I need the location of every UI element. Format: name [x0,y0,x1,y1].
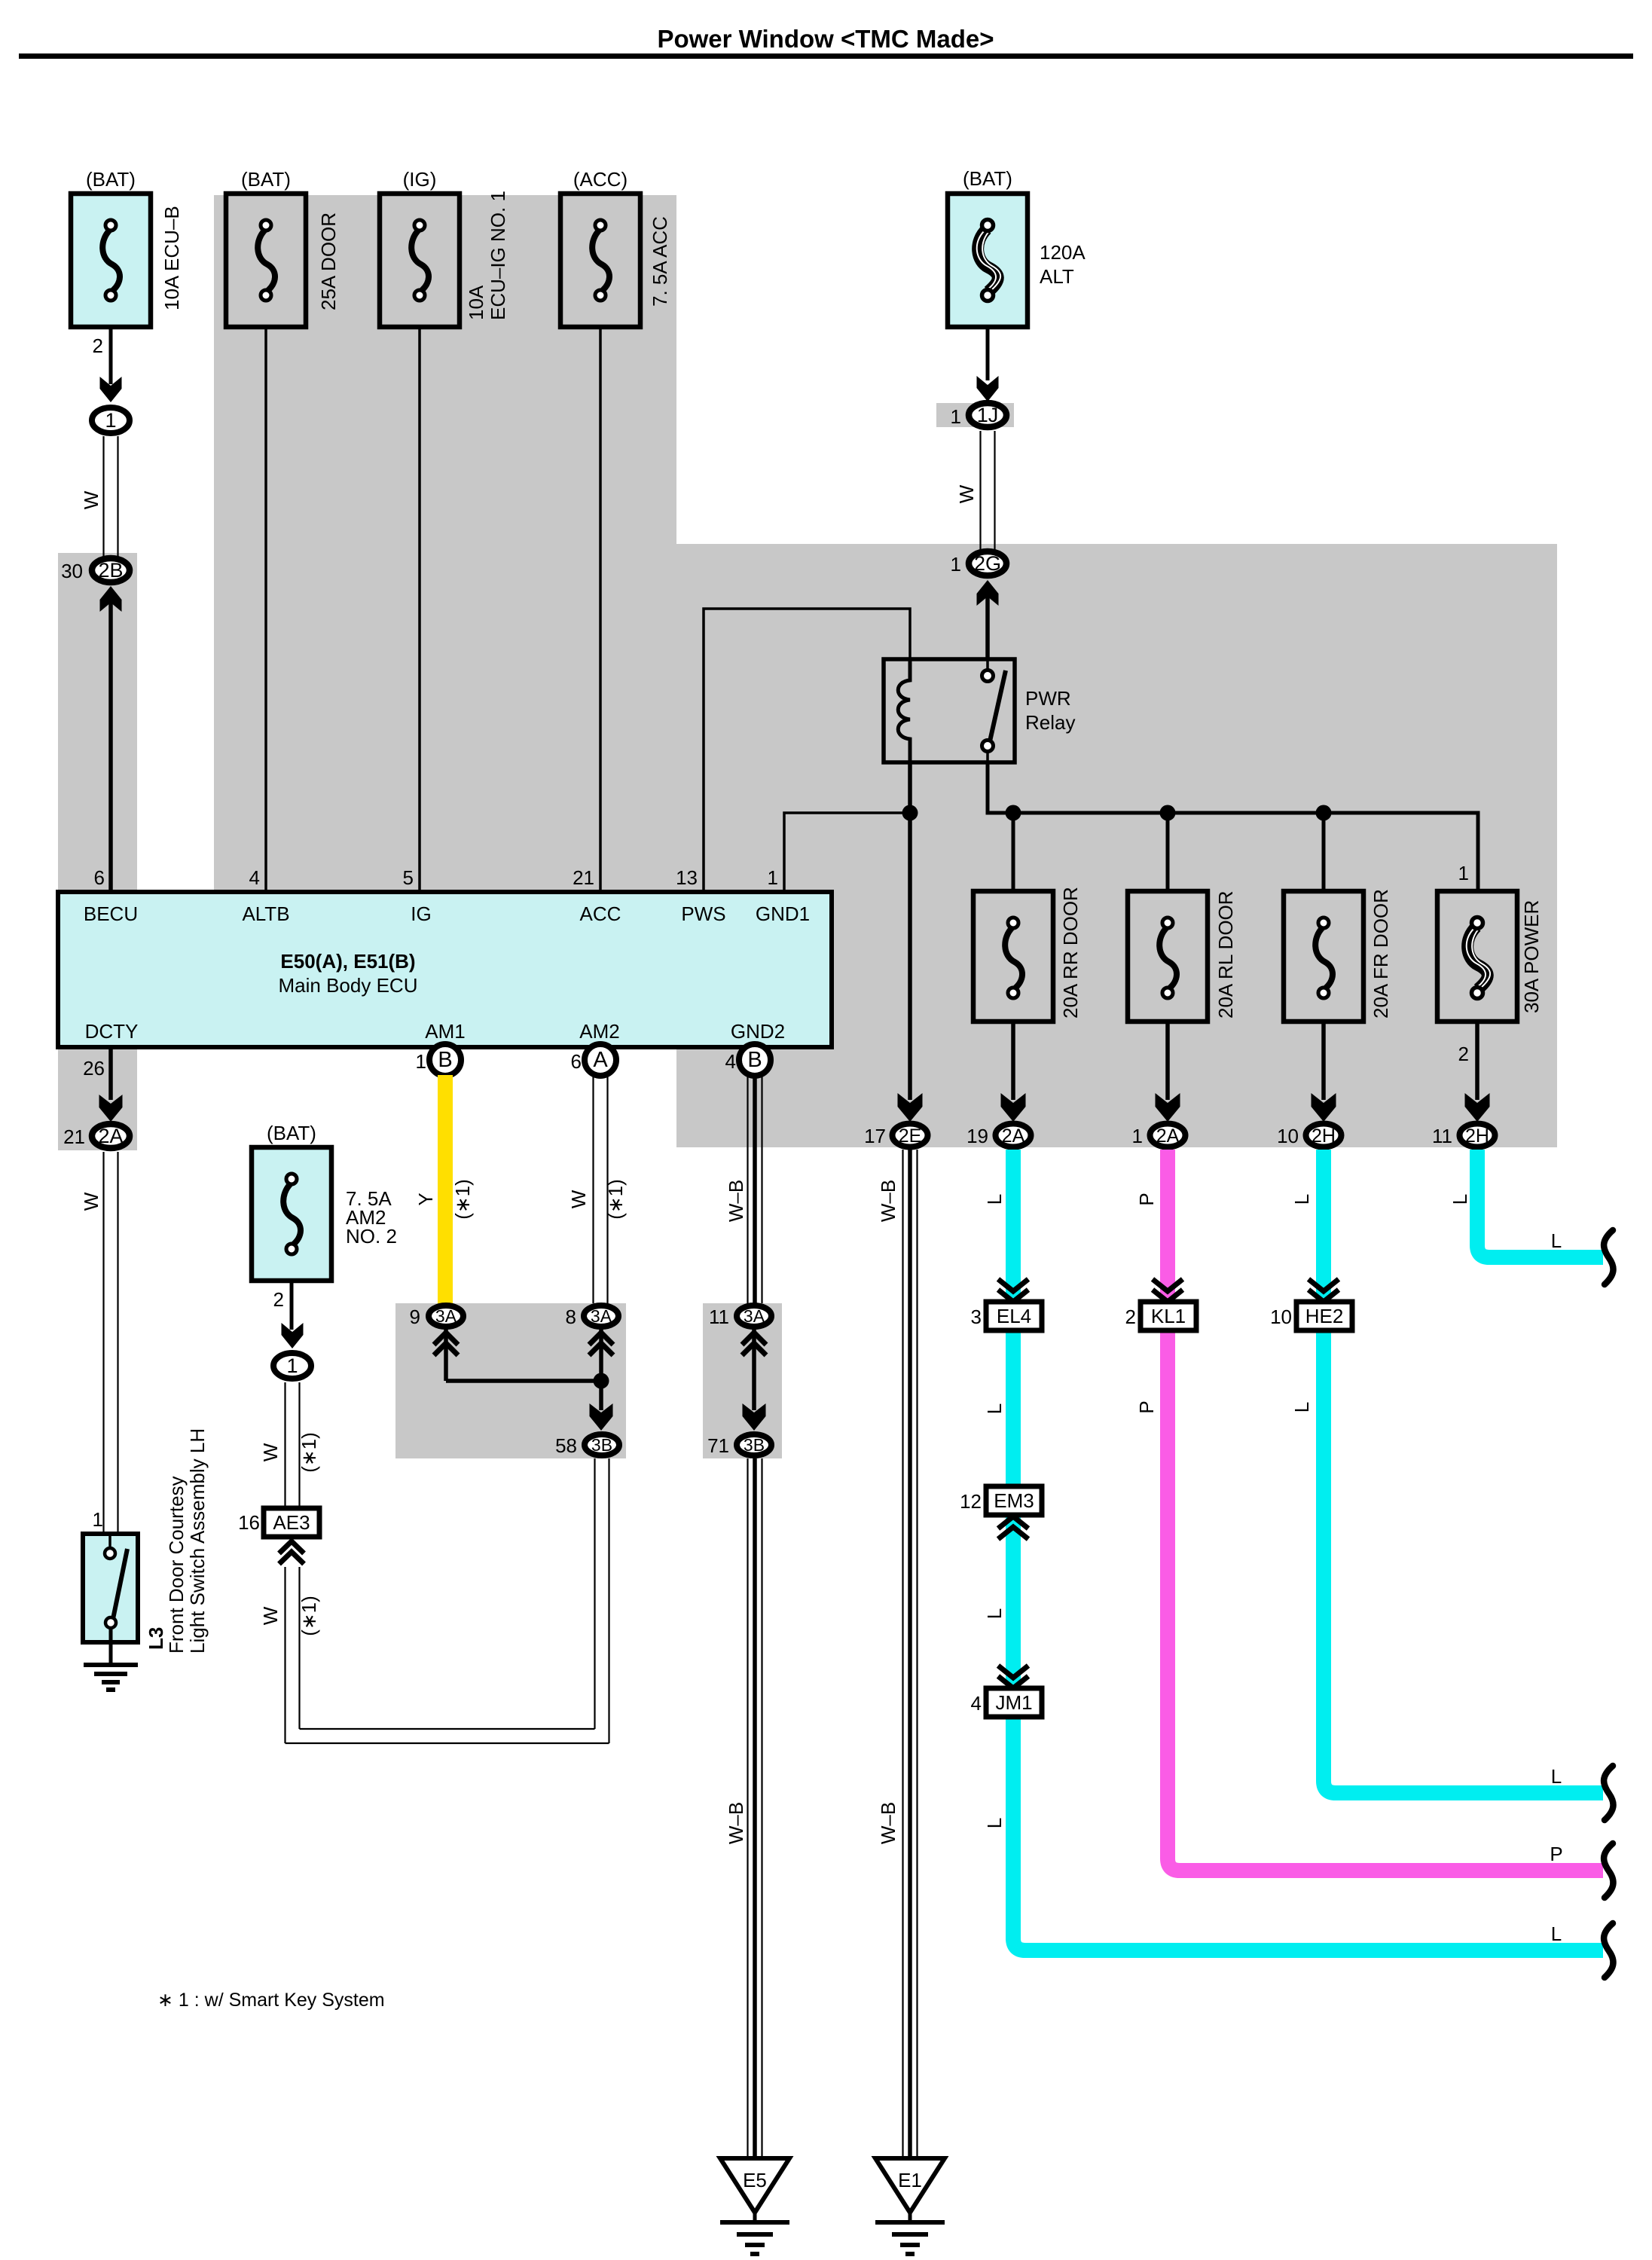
shading: band behind connector 1J [936,403,1014,427]
svg-text:Front Door Courtesy: Front Door Courtesy [165,1476,188,1654]
svg-text:KL1: KL1 [1151,1305,1186,1327]
svg-text:(∗1): (∗1) [298,1432,320,1473]
svg-text:2G: 2G [974,552,1001,575]
svg-text:9: 9 [410,1306,420,1328]
svg-text:L: L [1551,1229,1562,1252]
chevron at KL1 [1153,1279,1183,1291]
svg-text:4: 4 [725,1050,736,1073]
svg-text:E5: E5 [743,2169,767,2191]
svg-text:17: 17 [864,1125,886,1147]
svg-text:W: W [259,1606,282,1625]
svg-text:GND1: GND1 [756,902,810,925]
svg-text:2E: 2E [899,1125,922,1147]
svg-text:L: L [983,1818,1006,1828]
svg-text:L3: L3 [145,1627,167,1650]
wire W-B: 3B(71) to ground E5 [747,1458,748,2157]
svg-text:(BAT): (BAT) [86,168,136,191]
ground E1 [875,2158,945,2213]
svg-text:HE2: HE2 [1305,1305,1344,1327]
svg-text:4: 4 [249,866,260,889]
fuse RR DOOR 20A [973,891,1053,1022]
connector 2G [969,551,1006,576]
PWR Relay box [884,659,1015,762]
svg-text:P: P [1550,1843,1562,1865]
svg-text:2: 2 [273,1288,284,1311]
svg-text:1: 1 [93,1508,103,1531]
svg-text:8: 8 [566,1306,576,1328]
svg-text:DCTY: DCTY [85,1020,139,1043]
svg-text:W: W [80,490,102,509]
svg-text:2: 2 [1125,1306,1136,1328]
svg-text:(∗1): (∗1) [298,1596,320,1636]
svg-text:W–B: W–B [877,1802,899,1844]
wire: relay switch output rail to door fuses [988,762,1478,891]
svg-text:1: 1 [768,866,778,889]
svg-text:W: W [955,484,978,503]
svg-text:(BAT): (BAT) [963,167,1012,190]
connector 2H (FR door) [1306,1124,1342,1147]
svg-text:1J: 1J [977,404,999,426]
wire: rail to RR DOOR fuse [1012,813,1015,891]
chevron at AE3 [279,1541,304,1553]
connector 2A (left) [92,1124,130,1148]
svg-text:W: W [80,1192,102,1211]
svg-text:5: 5 [403,866,414,889]
wire: ECU DCTY (pin 26) to connector 2A [108,1047,113,1100]
wire: ACC fuse to ECU pin ACC (pin 21) [599,327,602,892]
connector AE3 [264,1508,319,1537]
wire: RR DOOR fuse to connector 2A [1011,1022,1015,1100]
svg-text:W–B: W–B [877,1180,899,1222]
svg-text:1: 1 [1132,1125,1143,1147]
svg-text:Y: Y [414,1193,437,1205]
junction: RL door fuse feed [1160,805,1176,821]
svg-text:B: B [747,1048,762,1072]
svg-text:E1: E1 [898,2169,922,2191]
svg-text:3B: 3B [744,1435,765,1455]
svg-text:1: 1 [1458,862,1469,884]
svg-text:10: 10 [1270,1306,1292,1328]
svg-text:P: P [1135,1193,1158,1205]
wire P: 2A(1) via KL1 to RL door [1168,1150,1603,1871]
svg-text:W: W [567,1190,590,1208]
svg-text:EM3: EM3 [994,1489,1034,1512]
svg-text:1: 1 [286,1354,298,1377]
connector EL4 [986,1302,1042,1330]
svg-text:1: 1 [951,553,961,576]
fuse AM2 NO.2 7.5A (BAT) [252,1147,331,1281]
svg-text:3A: 3A [744,1306,765,1326]
svg-text:Relay: Relay [1025,711,1075,734]
connector 3A (pin 11) [737,1306,771,1327]
svg-text:EL4: EL4 [997,1305,1031,1327]
svg-text:19: 19 [966,1125,988,1147]
chevron at HE2 [1308,1279,1339,1291]
svg-text:ECU–IG NO. 1: ECU–IG NO. 1 [487,191,509,320]
wire: 3A(9) junction link [444,1329,448,1381]
break symbol L (FR) [1604,1766,1613,1820]
svg-text:GND2: GND2 [731,1020,785,1043]
wire W (*1): AM2 to connector 3A (8) [592,1075,594,1303]
svg-text:21: 21 [573,866,594,889]
wire: DOOR fuse to ECU pin ALTB (pin 4) [264,327,267,892]
svg-text:L: L [983,1608,1006,1619]
connector EM3 [986,1486,1042,1515]
wire L: 2H(11) to power window [1477,1150,1603,1257]
fuse POWER 30A [1437,891,1517,1022]
shading: relay / door fuse junction block area (right) [676,544,1557,1147]
svg-text:26: 26 [83,1057,105,1080]
shading: fuse block area (top) [214,195,676,892]
wire W-B: 2E to ground E1 [902,1150,903,2157]
wire L: 2A(19) via EL4, EM3, JM1 to RR door [1006,1150,1021,1940]
ground (chassis) at courtesy switch [84,1663,138,1667]
wire L: 2H(10) via HE2 to FR door [1324,1150,1603,1793]
svg-text:(∗1): (∗1) [451,1179,474,1220]
svg-text:1: 1 [951,405,961,428]
svg-text:3B: 3B [591,1435,612,1455]
svg-text:11: 11 [709,1306,729,1328]
svg-text:L: L [1551,1765,1562,1788]
svg-text:A: A [593,1048,608,1072]
wire W: 2A to courtesy switch [102,1152,104,1534]
svg-text:AE3: AE3 [273,1511,310,1534]
connector 3A (pin 8) [584,1306,618,1327]
svg-text:16: 16 [238,1511,260,1534]
wire: ECU-B fuse to connector 1 [109,327,113,384]
svg-text:20A FR DOOR: 20A FR DOOR [1370,889,1392,1019]
svg-text:2H: 2H [1465,1125,1489,1147]
svg-text:L: L [983,1403,1006,1414]
connector JM1 [986,1688,1042,1717]
svg-text:6: 6 [94,866,105,889]
relay switch [986,659,989,670]
wire: 2B to ECU pin BECU (pin 6) [100,586,122,612]
svg-text:4: 4 [971,1692,982,1715]
title rule [19,53,1633,59]
svg-text:2: 2 [1458,1043,1469,1065]
fuse ACC 7.5A (ACC) [560,194,640,327]
shading: block behind connectors 3A/3B (AM1/AM2) [395,1303,626,1458]
svg-text:1: 1 [416,1050,426,1073]
svg-text:P: P [1135,1400,1158,1413]
connector 2A (RL door) [1150,1124,1186,1147]
svg-text:JM1: JM1 [995,1691,1032,1714]
svg-text:ALT: ALT [1040,265,1074,288]
shading: strip behind connectors 3A/3B (GND2) [703,1303,782,1458]
svg-text:L: L [1290,1402,1313,1412]
connector 2E [893,1124,928,1147]
wire W (*1): connector 1 to AE3 [284,1382,286,1509]
junction at 3A/3B link [594,1373,609,1389]
svg-text:L: L [1551,1923,1562,1945]
wire: ECU PWS (pin 13) to relay coil [704,609,910,892]
ground E5 [720,2158,789,2213]
svg-text:71: 71 [707,1434,729,1457]
junction: FR door fuse feed [1316,805,1332,821]
wire: rail to RL DOOR fuse [1166,813,1170,891]
svg-text:2H: 2H [1312,1125,1336,1147]
svg-text:2A: 2A [1002,1125,1025,1147]
chevron at EM3 [998,1516,1028,1529]
wire W (*1): AE3 down and across to 3B(58) [284,1567,286,1743]
connector A at ECU AM2 [585,1044,616,1076]
chevron at JM1 [998,1666,1028,1678]
svg-text:10A ECU–B: 10A ECU–B [160,206,183,310]
svg-text:Main Body ECU: Main Body ECU [279,974,418,997]
svg-text:6: 6 [571,1050,582,1073]
svg-text:3A: 3A [435,1306,457,1326]
svg-text:(ACC): (ACC) [573,168,628,191]
wire W: 1J to 2G [979,431,981,549]
fuse ECU-IG NO.1 10A (IG) [380,194,460,327]
switch L3 Front Door Courtesy Light Switch Assembly LH [83,1534,138,1642]
svg-text:W: W [259,1443,282,1461]
svg-text:30A POWER: 30A POWER [1520,900,1543,1013]
wire: 3A(11) to 3B(71) [752,1329,756,1410]
svg-text:B: B [438,1048,452,1072]
connector 1 (oval) below ECU-B fuse [92,408,130,433]
svg-text:AM2: AM2 [579,1020,619,1043]
svg-text:L: L [983,1194,1006,1205]
svg-text:3: 3 [971,1306,982,1328]
svg-text:2A: 2A [1156,1125,1180,1147]
wire: POWER fuse to connector 2H [1475,1022,1479,1100]
fuse ALT 120A (BAT) [948,194,1028,327]
Main Body ECU E50(A) E51(B) box [58,892,832,1047]
wire Y: AM1 to connector 3A (9) [438,1075,453,1304]
svg-text:3A: 3A [591,1306,612,1326]
svg-text:∗ 1 : w/ Smart Key System: ∗ 1 : w/ Smart Key System [157,1990,385,2011]
svg-text:IG: IG [411,902,431,925]
wire: relay coil to junction and connector 2E [908,762,912,1100]
break symbol L (POWER) [1604,1230,1613,1284]
wire W: connector 1 to 2B [102,436,104,558]
svg-text:NO. 2: NO. 2 [346,1225,397,1248]
svg-text:BECU: BECU [84,902,138,925]
wire: AM2 fuse to connector 1 [290,1278,294,1330]
connector 2B [92,558,130,582]
connector 3B (pin 71) [737,1434,771,1455]
shading: left junction strip upper (2B-BECU) [58,553,137,892]
svg-text:(IG): (IG) [403,168,437,191]
svg-text:30: 30 [61,560,83,582]
break symbol L bottom [1604,1923,1613,1977]
svg-text:2A: 2A [98,1125,123,1147]
svg-text:21: 21 [63,1125,85,1148]
svg-text:AM1: AM1 [425,1020,465,1043]
svg-text:1: 1 [105,409,116,432]
svg-text:L: L [1449,1194,1471,1205]
wire: rail to FR DOOR fuse [1322,813,1326,891]
svg-text:10: 10 [1277,1125,1299,1147]
svg-text:25A DOOR: 25A DOOR [317,212,340,310]
wire: ALT fuse to connector 1J [986,327,990,380]
svg-text:E50(A), E51(B): E50(A), E51(B) [280,950,415,973]
connector 2H (POWER) [1460,1124,1495,1147]
wire: 2G to PWR relay switch [977,580,999,606]
svg-text:12: 12 [960,1490,982,1513]
svg-text:L: L [1290,1194,1313,1205]
svg-text:11: 11 [1432,1125,1452,1147]
break symbol P [1604,1843,1613,1898]
svg-text:PWS: PWS [681,902,725,925]
connector 3B (pin 58) [585,1434,619,1455]
svg-text:(BAT): (BAT) [241,168,291,191]
connector 1 (oval) below AM2 fuse [273,1353,311,1379]
svg-text:W–B: W–B [725,1180,747,1222]
svg-text:(∗1): (∗1) [604,1179,627,1220]
shading: left junction strip lower (DCTY-2A) [58,1047,137,1150]
svg-text:W–B: W–B [725,1802,747,1844]
fuse ECU-B 10A (BAT) [71,194,151,327]
wire: RL DOOR fuse to connector 2A [1165,1022,1170,1100]
fuse FR DOOR 20A [1284,891,1363,1022]
fuse DOOR 25A (BAT) [226,194,306,327]
junction: RR door fuse feed [1006,805,1021,821]
connector 2A (RR door) [996,1124,1031,1147]
relay coil [898,659,910,762]
wire W-B: GND2 to connector 3A (11) [747,1075,748,1303]
svg-text:2: 2 [93,334,103,357]
svg-text:Power Window <TMC Made>: Power Window <TMC Made> [657,25,994,53]
svg-text:120A: 120A [1040,241,1086,264]
svg-text:7. 5A ACC: 7. 5A ACC [649,216,671,307]
svg-text:20A RR DOOR: 20A RR DOOR [1059,887,1082,1019]
chevron at EL4 [998,1279,1028,1291]
svg-text:Light Switch Assembly LH: Light Switch Assembly LH [186,1428,209,1654]
wire: 3A(8) to 3B(58) [599,1329,603,1410]
connector HE2 [1296,1302,1352,1330]
svg-text:20A RL DOOR: 20A RL DOOR [1214,890,1237,1019]
svg-text:10A: 10A [465,285,487,320]
svg-text:58: 58 [555,1434,577,1457]
wire: FR DOOR fuse to connector 2H [1321,1022,1326,1100]
wire: link to junction at AM2 column [446,1379,601,1383]
connector KL1 [1141,1302,1196,1330]
svg-text:13: 13 [676,866,698,889]
connector 3A (pin 9) [429,1306,463,1327]
svg-text:ALTB: ALTB [242,902,289,925]
wire: ECU GND1 (pin 1) to coil junction [784,813,910,892]
fuse RL DOOR 20A [1128,891,1208,1022]
svg-text:ACC: ACC [580,902,621,925]
connector B at ECU AM1 [429,1044,461,1076]
connector B at ECU GND2 [739,1044,771,1076]
wire: ECU-IG fuse to ECU pin IG (pin 5) [418,327,421,892]
svg-text:2B: 2B [98,559,123,582]
svg-text:(BAT): (BAT) [267,1122,316,1144]
connector 1J [969,403,1006,427]
junction: coil/GND1 [902,805,918,821]
svg-text:PWR: PWR [1025,687,1071,710]
